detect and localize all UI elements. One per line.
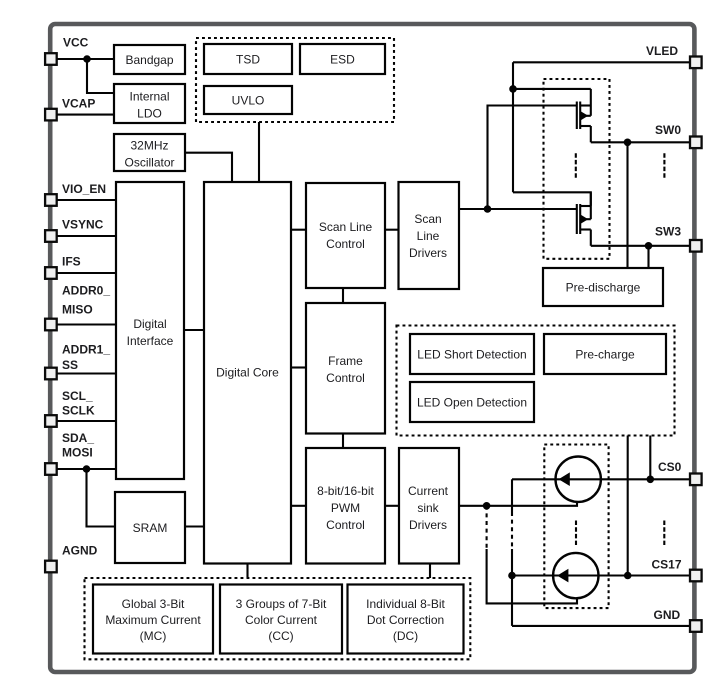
block TSD — [204, 44, 292, 74]
wire detection box to CS17 — [627, 436, 629, 576]
svg-text:(MC): (MC) — [140, 629, 167, 643]
pin CS17 — [690, 570, 702, 582]
wire PWM Control to Current sink Drivers — [385, 505, 399, 507]
svg-text:Drivers: Drivers — [409, 518, 447, 532]
node VLED junction — [509, 85, 517, 93]
block LED Open Detection — [410, 382, 534, 422]
svg-text:SCL_: SCL_ — [62, 389, 93, 403]
pin SW0 — [690, 137, 702, 149]
svg-text:Internal: Internal — [129, 89, 169, 103]
wire Digital Core to PWM Control — [291, 505, 306, 507]
ellipsis current source column — [575, 521, 577, 546]
wire CS17 — [512, 574, 691, 576]
detection dashed box — [397, 326, 675, 436]
wire VLED rail horizontal — [513, 61, 690, 63]
block LED Short Detection — [410, 334, 534, 374]
wire repeat branch vertical — [487, 506, 577, 604]
block Scan Line Control — [306, 183, 385, 288]
wire ADDR0 to Digital Interface — [57, 323, 116, 325]
block UVLO — [204, 86, 292, 114]
svg-text:CS17: CS17 — [652, 558, 682, 572]
wire Current sink Drivers to current config box — [429, 564, 431, 579]
svg-text:SDA_: SDA_ — [62, 431, 94, 445]
node SDA junction — [83, 465, 91, 473]
wire SCL to Digital Interface — [57, 420, 116, 422]
svg-text:SW0: SW0 — [655, 123, 681, 137]
wire UVLO box to Digital Core — [258, 122, 260, 182]
block SRAM — [115, 492, 185, 563]
svg-text:sink: sink — [417, 501, 439, 515]
node CS17 right junction — [624, 572, 632, 580]
wire Frame Control to PWM Control — [342, 434, 344, 449]
switch dashed box — [544, 79, 610, 259]
pin VLED — [690, 57, 702, 69]
svg-text:Color Current: Color Current — [245, 613, 318, 627]
wire SDA to Digital Interface — [57, 468, 116, 470]
svg-text:ESD: ESD — [330, 52, 355, 66]
wire SRAM to Digital Core — [185, 525, 204, 527]
pin VCAP — [45, 109, 57, 121]
wire Digital Core to Frame Control — [291, 366, 306, 368]
wire ADDR1 to Digital Interface — [57, 372, 116, 374]
ellipsis CS pins — [663, 521, 665, 546]
svg-text:SRAM: SRAM — [133, 521, 168, 535]
svg-text:SS: SS — [62, 358, 78, 372]
block 8-bit/16-bit PWM Control — [306, 448, 385, 564]
current source I1 — [556, 457, 601, 502]
label SDA_MOSI — [62, 431, 94, 459]
svg-text:ADDR1_: ADDR1_ — [62, 342, 110, 356]
pin IFS — [45, 267, 57, 279]
svg-text:(DC): (DC) — [393, 629, 418, 643]
node SW0 junction — [624, 139, 632, 147]
pin AGND — [45, 561, 57, 573]
block Pre-discharge — [543, 268, 663, 306]
current source dashed box — [544, 445, 608, 609]
svg-text:Pre-charge: Pre-charge — [575, 347, 635, 361]
svg-text:PWM: PWM — [331, 501, 360, 515]
svg-text:Individual 8-Bit: Individual 8-Bit — [366, 597, 445, 611]
pin CS0 — [690, 474, 702, 486]
current source I2 — [553, 553, 598, 598]
svg-text:UVLO: UVLO — [232, 93, 265, 107]
wire IFS to Digital Interface — [57, 272, 116, 274]
svg-text:Digital Core: Digital Core — [216, 365, 279, 379]
block ESD — [300, 44, 385, 74]
svg-text:Drivers: Drivers — [409, 246, 447, 260]
svg-text:LDO: LDO — [137, 106, 162, 120]
wire VCC to Bandgap — [57, 58, 114, 60]
wire VLED to Q1 drain — [513, 88, 591, 90]
wire detection box to CS0 — [649, 436, 651, 480]
svg-text:8-bit/16-bit: 8-bit/16-bit — [317, 484, 374, 498]
label ADDR1_SS — [62, 342, 110, 372]
node VCC junction — [83, 55, 91, 63]
label SCL_SCLK — [62, 389, 95, 418]
pin SW3 — [690, 240, 702, 252]
wire Digital Core to current config box — [246, 564, 248, 579]
svg-text:IFS: IFS — [62, 254, 81, 268]
svg-text:Maximum Current: Maximum Current — [105, 613, 201, 627]
svg-text:VSYNC: VSYNC — [62, 217, 104, 231]
transistor Q2 — [577, 192, 591, 246]
wire Oscillator to Digital Core — [185, 153, 232, 182]
pin SCL_SCLK — [45, 415, 57, 427]
wire SW3 — [591, 245, 690, 247]
svg-text:TSD: TSD — [236, 52, 260, 66]
svg-text:VCC: VCC — [63, 35, 89, 49]
pin ADDR0_MISO — [45, 319, 57, 331]
svg-text:Scan: Scan — [414, 212, 441, 226]
ellipsis SW pins — [663, 153, 665, 178]
wire Scan Line Drivers to gates — [459, 208, 576, 210]
svg-text:Interface: Interface — [127, 334, 174, 348]
block Frame Control — [306, 303, 385, 434]
block Individual 8-Bit Dot Correction (DC) — [348, 585, 464, 654]
wire SW3 to Pre-discharge — [647, 246, 649, 268]
svg-text:SW3: SW3 — [655, 225, 681, 239]
svg-text:Digital: Digital — [133, 317, 166, 331]
block Scan Line Drivers — [399, 182, 460, 289]
wire VLED rail vertical — [512, 62, 514, 192]
wire Digital Interface to Digital Core — [184, 329, 204, 331]
block Internal LDO — [114, 84, 185, 123]
wire CS0 branch vertical — [511, 479, 513, 626]
pin GND — [690, 620, 702, 632]
svg-text:Frame: Frame — [328, 354, 363, 368]
pin SDA_MOSI — [45, 463, 57, 475]
node gate junction — [484, 205, 492, 213]
current config dashed box — [85, 578, 471, 659]
ellipsis switch column — [575, 153, 577, 178]
block Global 3-Bit Maximum Current (MC) — [93, 585, 213, 654]
wire Scan Line Control to Frame Control — [342, 288, 344, 303]
svg-text:Control: Control — [326, 237, 365, 251]
wire SW0 — [591, 141, 690, 143]
wire Digital Core to Scan Line Control — [291, 229, 306, 231]
svg-text:VLED: VLED — [646, 44, 678, 58]
block 32MHz Oscillator — [114, 134, 185, 171]
block Digital Interface — [116, 182, 184, 479]
wire VCC to Internal LDO — [87, 59, 114, 93]
svg-text:MISO: MISO — [62, 302, 93, 316]
node CS17 left junction — [508, 572, 516, 580]
svg-text:MOSI: MOSI — [62, 445, 93, 459]
wire CS0 — [512, 478, 690, 480]
svg-text:Control: Control — [326, 518, 365, 532]
svg-text:Current: Current — [408, 484, 449, 498]
wire SDA to SRAM — [87, 469, 116, 527]
svg-text:VIO_EN: VIO_EN — [62, 182, 106, 196]
svg-text:Control: Control — [326, 371, 365, 385]
svg-text:GND: GND — [654, 608, 681, 622]
block Bandgap — [114, 45, 185, 74]
node CS0 junction — [647, 476, 655, 484]
svg-text:LED Short Detection: LED Short Detection — [417, 347, 526, 361]
wire Scan Line Control to Scan Line Drivers — [385, 229, 399, 231]
wire VCAP to Internal LDO — [57, 114, 114, 116]
block Current sink Drivers — [399, 448, 459, 564]
pin ADDR1_SS — [45, 368, 57, 380]
svg-text:Dot Correction: Dot Correction — [367, 613, 444, 627]
wire VLED to Q2 drain — [513, 192, 591, 206]
wire VIO_EN to Digital Interface — [57, 199, 116, 201]
wire SW0 to Pre-discharge — [626, 142, 628, 268]
block 3 Groups of 7-Bit Color Current (CC) — [220, 585, 342, 654]
wire GND — [512, 625, 690, 627]
svg-text:Scan Line: Scan Line — [319, 220, 373, 234]
pin VSYNC — [45, 230, 57, 242]
svg-text:ADDR0_: ADDR0_ — [62, 283, 110, 297]
block Pre-charge — [544, 334, 666, 374]
node sink drivers junction — [483, 502, 491, 510]
wire gate rail up to Q1 — [488, 106, 577, 210]
block Digital Core — [204, 182, 291, 564]
svg-text:Bandgap: Bandgap — [125, 53, 173, 67]
svg-text:Line: Line — [417, 229, 440, 243]
svg-text:AGND: AGND — [62, 543, 98, 557]
wire Current sink Drivers output — [458, 502, 577, 506]
svg-text:32MHz: 32MHz — [130, 139, 168, 153]
transistor Q1 — [577, 89, 591, 142]
wire VSYNC to Digital Interface — [57, 235, 116, 237]
svg-text:VCAP: VCAP — [62, 96, 95, 110]
svg-text:SCLK: SCLK — [62, 404, 95, 418]
pin VCC — [45, 53, 57, 65]
svg-text:CS0: CS0 — [658, 460, 682, 474]
svg-text:Oscillator: Oscillator — [124, 156, 174, 170]
svg-text:LED Open Detection: LED Open Detection — [417, 395, 527, 409]
pin VIO_EN — [45, 194, 57, 206]
label ADDR0_MISO — [62, 283, 110, 316]
protection dashed box — [196, 38, 394, 122]
node SW3 junction — [645, 242, 653, 250]
svg-text:Global 3-Bit: Global 3-Bit — [122, 597, 185, 611]
svg-text:Pre-discharge: Pre-discharge — [566, 280, 641, 294]
svg-text:3 Groups of 7-Bit: 3 Groups of 7-Bit — [236, 597, 327, 611]
svg-text:(CC): (CC) — [268, 629, 293, 643]
